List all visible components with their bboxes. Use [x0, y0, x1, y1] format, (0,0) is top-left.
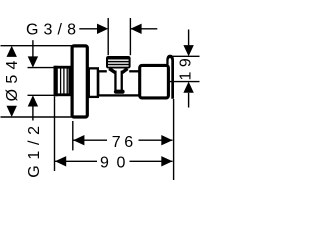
extension line flange bottom — [1, 116, 72, 118]
arrowhead right toward outlet left extension — [97, 24, 108, 34]
boss between flange and body — [89, 68, 98, 97]
inlet pipe body — [55, 67, 70, 95]
arrowhead right for dim 76 — [161, 135, 172, 145]
svg-text:90: 90 — [100, 155, 133, 172]
leader line from G3/8 label — [79, 28, 100, 30]
arrowhead left toward outlet right extension — [130, 24, 141, 34]
svg-text:19: 19 — [178, 54, 195, 81]
arrowhead down for dim 19 — [183, 45, 193, 56]
inlet pipe end cap — [54, 66, 58, 96]
gap in body top edge under handle — [107, 69, 129, 73]
arrowhead left for dim 76 — [73, 135, 84, 145]
valve stem foot — [114, 90, 125, 94]
extension line product front — [173, 99, 175, 180]
pipe thread line 3 — [66, 68, 68, 94]
square escutcheon — [140, 65, 169, 98]
extension line pipe top — [28, 67, 54, 69]
arrowhead right for dim 90 — [161, 156, 172, 166]
valve body — [98, 71, 140, 95]
arrowhead up for dim 19 — [183, 82, 193, 93]
handle knob — [106, 56, 131, 69]
svg-text:76: 76 — [112, 134, 137, 151]
handle shoulder left — [109, 69, 115, 73]
extension line holder top — [170, 55, 199, 57]
handle shoulder right — [122, 69, 128, 73]
dimension line 76 right segment — [139, 139, 173, 141]
extension line flange top — [1, 45, 72, 47]
dimension tail line right of outlet — [130, 28, 157, 30]
valve stem right side — [121, 71, 123, 90]
extension line outlet left — [107, 18, 109, 55]
arrowhead down for dim G1/2 — [28, 56, 38, 67]
svg-text:Ø54: Ø54 — [4, 55, 21, 101]
valve stem left side — [114, 71, 116, 90]
arrowhead up for dim diameter 54 — [7, 46, 17, 57]
pipe thread line 2 — [63, 68, 65, 94]
dimension line G1/2 lower segment — [32, 107, 34, 121]
dimension line 19 lower segment — [188, 93, 190, 108]
knob groove 3 — [108, 65, 129, 67]
dimension line 19 upper segment — [188, 30, 190, 46]
pipe thread line 1 — [60, 68, 62, 94]
arrowhead left for dim 90 — [55, 156, 66, 166]
dimension line 76 left segment — [73, 139, 107, 141]
extension line wall — [54, 97, 56, 172]
holder hook — [166, 55, 174, 99]
extension line holder bottom — [168, 81, 199, 83]
extension line flange face — [72, 121, 74, 150]
knob groove 1 — [108, 59, 129, 61]
dimension line 90 left segment — [55, 160, 97, 162]
arrowhead up for dim G1/2 — [28, 95, 38, 106]
knob groove 2 — [108, 62, 129, 64]
svg-text:G1/2: G1/2 — [26, 120, 43, 178]
extension line outlet right — [129, 18, 131, 55]
extension line pipe bottom — [28, 94, 54, 96]
svg-text:G3/8: G3/8 — [26, 22, 81, 39]
dimension line 90 right segment — [130, 160, 173, 162]
dimension line G1/2 upper segment — [32, 40, 34, 56]
wall flange — [72, 46, 87, 117]
arrowhead down for dim diameter 54 — [7, 106, 17, 117]
